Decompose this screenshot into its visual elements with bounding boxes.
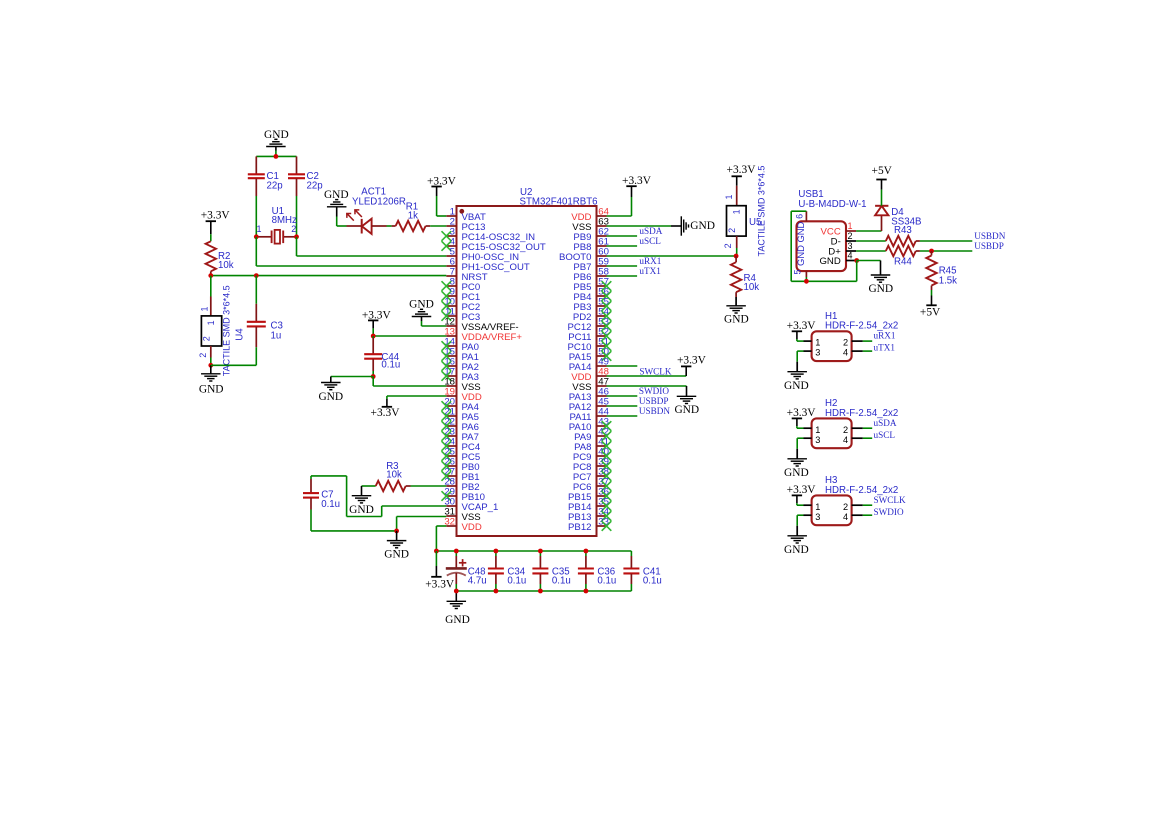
- junction R2/U4/NRST: [208, 273, 213, 278]
- U2 pin 56 PB4: [597, 295, 607, 297]
- U2 pin 38 PC7: [597, 475, 607, 477]
- svg-text:uTX1: uTX1: [639, 266, 661, 276]
- svg-text:1k: 1k: [408, 210, 418, 221]
- U2 pin 44 PA11: [597, 415, 607, 417]
- U2 pin-1 marker dot: [459, 209, 464, 214]
- U2 pin 57 PB5: [597, 285, 607, 287]
- wire +3.3V to VBAT: [436, 196, 438, 216]
- svg-text:U-B-M4DD-W-1: U-B-M4DD-W-1: [798, 199, 866, 210]
- svg-text:1: 1: [848, 221, 853, 231]
- wire H2 pin2 / net uSDA: [863, 427, 872, 429]
- H3 pin 4 stub: [852, 514, 863, 516]
- svg-text:GND: GND: [784, 467, 809, 479]
- wire D- to R43: [856, 240, 886, 242]
- wire PB9 pin62 / net uSDA: [607, 235, 638, 237]
- svg-text:GND: GND: [784, 380, 809, 392]
- capacitor C34 0.1u: [495, 551, 497, 556]
- ground (C44): [330, 377, 332, 383]
- U2 pin 10 PC2: [446, 305, 456, 307]
- U2 pin 19 VDD: [446, 395, 456, 397]
- svg-text:+3.3V: +3.3V: [787, 407, 817, 419]
- wire H3 pin3 to ground: [797, 514, 803, 516]
- wire GND pin4: [857, 260, 881, 262]
- svg-text:2: 2: [843, 425, 848, 435]
- capacitor C41 0.1u: [630, 551, 632, 556]
- wire H1 pin4 / net uTX1: [863, 350, 872, 352]
- svg-text:USBDP: USBDP: [974, 241, 1004, 251]
- wire C2 to crystal pin2: [296, 196, 298, 237]
- wire BOOT0 pin60 to U5/R4: [607, 255, 737, 257]
- wire R1 to PC13 pin2: [430, 225, 446, 227]
- junction shield pin5: [804, 279, 809, 284]
- wire crystal pin1 to PH1-OSC_OUT pin6: [255, 237, 257, 266]
- junction C3/NRST: [254, 273, 259, 278]
- svg-text:SWDIO: SWDIO: [639, 386, 669, 396]
- resistor R1 1k: [392, 225, 396, 227]
- U2 pin 50 PA15: [597, 355, 607, 357]
- junction C44 bottom: [371, 374, 376, 379]
- crystal U1 8MHz: [256, 236, 271, 238]
- svg-text:2: 2: [202, 336, 212, 341]
- wire VDD pin32 to rail: [436, 525, 446, 527]
- wire C7 top to VCAP_1 pin30: [310, 476, 312, 479]
- wire GND to VSSA: [422, 325, 447, 327]
- U2 pin 2 PC13: [446, 225, 456, 227]
- ground (USB1): [880, 261, 882, 276]
- wire R3 to PB2 pin28: [411, 485, 447, 487]
- svg-text:1: 1: [256, 224, 261, 234]
- svg-text:USBDN: USBDN: [974, 231, 1006, 241]
- svg-text:1u: 1u: [271, 330, 282, 341]
- U2 pin 29 PB10: [446, 495, 456, 497]
- resistor R45 1.5k: [931, 251, 933, 256]
- svg-text:2: 2: [843, 338, 848, 348]
- wire R44 / net USBDP: [920, 250, 972, 252]
- U2 pin 5 PH0-OSC_IN: [446, 255, 456, 257]
- wire H1 pin2 / net uRX1: [863, 340, 872, 342]
- svg-text:+3.3V: +3.3V: [427, 175, 457, 187]
- USB1 pin 4 stub: [846, 260, 857, 262]
- capacitor C48 4.7u: [455, 551, 457, 556]
- svg-text:GND: GND: [784, 544, 809, 556]
- U2 pin 18 VSS: [446, 385, 456, 387]
- U2 pin 30 VCAP_1: [446, 505, 456, 507]
- U2 pin 13 VDDA/VREF+: [446, 335, 456, 337]
- USB1 shield pin 5 stub: [805, 271, 807, 277]
- svg-text:VDD: VDD: [462, 522, 482, 533]
- svg-text:1: 1: [199, 306, 209, 311]
- svg-text:0.1u: 0.1u: [381, 360, 400, 371]
- U2 pin 34 PB13: [597, 515, 607, 517]
- wire NRST net: [211, 275, 446, 277]
- ground (C7/VSS): [396, 531, 398, 541]
- U2 pin 8 PC0: [446, 285, 456, 287]
- ground (H3): [796, 526, 798, 536]
- capacitor C2: [296, 156, 298, 174]
- svg-text:1: 1: [815, 425, 820, 435]
- LED ACT1 YLED1206R: [347, 225, 362, 227]
- wire H3 pin2 / net SWCLK: [863, 504, 872, 506]
- svg-text:GND: GND: [819, 256, 840, 267]
- wire VDDA pin13: [373, 335, 446, 337]
- U2 pin 61 PB8: [597, 245, 607, 247]
- H1 pin 2 stub: [852, 340, 863, 342]
- wire U5 pin2 to BOOT0: [736, 248, 738, 256]
- svg-text:+3.3V: +3.3V: [371, 407, 401, 419]
- resistor R44: [886, 246, 916, 256]
- junction U4 pin2 / C3: [208, 363, 213, 368]
- junction C34 bottom: [494, 589, 499, 594]
- svg-text:4: 4: [843, 348, 848, 358]
- svg-text:22p: 22p: [307, 180, 323, 191]
- svg-text:uSDA: uSDA: [639, 226, 662, 236]
- U2 pin 16 PA2: [446, 365, 456, 367]
- wire H1 pin3 to ground: [797, 350, 803, 352]
- U2 pin 4 PC15-OSC32_OUT: [446, 245, 456, 247]
- svg-text:2: 2: [198, 353, 208, 358]
- U2 pin 26 PB0: [446, 465, 456, 467]
- wire U4 pin2 to ground: [210, 358, 212, 366]
- U2 pin 51 PC10: [597, 345, 607, 347]
- junction rail/+3.3V: [434, 549, 439, 554]
- IC U2 STM32F401RBT6 body: [457, 206, 597, 536]
- svg-text:4.7u: 4.7u: [468, 576, 487, 587]
- svg-text:0.1u: 0.1u: [552, 576, 571, 587]
- svg-text:uSCL: uSCL: [874, 430, 896, 440]
- USB1 shield pin 6 stub: [805, 211, 807, 221]
- svg-text:1: 1: [731, 209, 741, 214]
- svg-text:GND: GND: [318, 391, 343, 403]
- wire PA13 pin46 / net SWDIO: [607, 395, 638, 397]
- svg-text:U4: U4: [234, 328, 245, 341]
- U2 pin 22 PA6: [446, 425, 456, 427]
- U2 pin 21 PA5: [446, 415, 456, 417]
- wire +3.3V to VDD pin64: [631, 197, 633, 216]
- wire VCC to D4: [856, 230, 881, 232]
- H3 pin 2 stub: [852, 504, 863, 506]
- svg-text:USBDN: USBDN: [639, 406, 671, 416]
- svg-text:STM32F401RBT6: STM32F401RBT6: [520, 197, 598, 208]
- junction C35 top: [538, 549, 543, 554]
- svg-text:1.5k: 1.5k: [939, 276, 957, 287]
- svg-text:+3.3V: +3.3V: [787, 484, 817, 496]
- U2 pin 25 PC5: [446, 455, 456, 457]
- svg-text:+5V: +5V: [920, 307, 941, 319]
- U2 pin 12 VSSA/VREF-: [446, 325, 456, 327]
- U2 pin 49 PA14: [597, 365, 607, 367]
- capacitor C35 0.1u: [539, 551, 541, 556]
- U2 pin 3 PC14-OSC32_IN: [446, 235, 456, 237]
- junction top rail: [274, 154, 279, 159]
- wire VSS pin31: [397, 516, 447, 518]
- wire VSS pin47 to ground: [607, 385, 687, 387]
- svg-text:0.1u: 0.1u: [597, 576, 616, 587]
- svg-text:4: 4: [848, 251, 853, 261]
- svg-text:GND: GND: [384, 548, 409, 560]
- USB1 pin 2 stub: [846, 240, 856, 242]
- wire C3 bottom to U4 pin2: [255, 347, 257, 365]
- wire C1-C2 top rail: [256, 155, 296, 157]
- svg-text:10k: 10k: [744, 282, 760, 293]
- wire shield loop: [791, 210, 806, 212]
- USB1 pin 3 stub: [846, 250, 856, 252]
- svg-text:3: 3: [815, 512, 820, 522]
- svg-text:uSDA: uSDA: [874, 418, 897, 428]
- U2 pin 24 PC4: [446, 445, 456, 447]
- H3 pin 3 stub: [804, 514, 812, 516]
- svg-text:SWCLK: SWCLK: [639, 367, 672, 377]
- svg-text:GND: GND: [349, 504, 374, 516]
- U2 pin 36 PB15: [597, 495, 607, 497]
- svg-text:uSCL: uSCL: [639, 236, 661, 246]
- U2 pin 54 PD2: [597, 315, 607, 317]
- svg-text:TACTILE SMD 3*6*4.5: TACTILE SMD 3*6*4.5: [757, 166, 767, 257]
- svg-text:GND: GND: [690, 220, 715, 232]
- wire C44 bottom to ground: [331, 376, 373, 378]
- H2 pin 2 stub: [852, 427, 863, 429]
- svg-text:4: 4: [843, 435, 848, 445]
- svg-text:1: 1: [815, 338, 820, 348]
- wire C44 bottom to VSS pin18: [372, 377, 374, 387]
- ground (H1): [796, 362, 798, 372]
- svg-text:USBDP: USBDP: [639, 396, 669, 406]
- wire C1 to crystal pin1: [255, 196, 257, 237]
- junction crystal pin1: [254, 234, 259, 239]
- svg-text:+5V: +5V: [872, 165, 893, 177]
- ground (VSS pin63, rotated): [671, 225, 681, 227]
- H1 pin 3 stub: [804, 350, 812, 352]
- U2 pin 63 VSS: [597, 225, 607, 227]
- capacitor C44 0.1u: [372, 338, 374, 354]
- U2 pin 60 BOOT0: [597, 255, 607, 257]
- junction C34 top: [494, 549, 499, 554]
- wire VDD pin48 to +3.3V: [607, 375, 687, 377]
- U2 pin 28 PB2: [446, 485, 456, 487]
- power +3.3V (rail, inverted): [435, 551, 437, 566]
- U2 pin 33 PB12: [597, 525, 607, 527]
- U2 pin 9 PC1: [446, 295, 456, 297]
- svg-text:GND: GND: [445, 614, 470, 626]
- resistor R4 10k: [735, 256, 737, 262]
- wire PA11 pin44 / net USBDN: [607, 415, 638, 417]
- svg-text:2: 2: [848, 231, 853, 241]
- svg-text:10k: 10k: [386, 470, 402, 481]
- ground (decoupling rail): [455, 591, 457, 601]
- svg-text:2: 2: [723, 243, 733, 248]
- U2 pin 52 PC11: [597, 335, 607, 337]
- U2 pin 14 PA0: [446, 345, 456, 347]
- wire H2 pin4 / net uSCL: [863, 437, 872, 439]
- U2 pin 6 PH1-OSC_OUT: [446, 265, 456, 267]
- H1 pin 1 stub: [804, 340, 812, 342]
- wire VDD pin19: [387, 395, 446, 397]
- capacitor C1: [255, 156, 257, 174]
- wire PA14 pin49: [607, 365, 638, 367]
- svg-text:TACTILE SMD 3*6*4.5: TACTILE SMD 3*6*4.5: [222, 285, 232, 376]
- H1 pin 4 stub: [852, 350, 863, 352]
- U2 pin 39 PC8: [597, 465, 607, 467]
- junction VDDA/C44: [371, 334, 376, 339]
- U2 pin 11 PC3: [446, 315, 456, 317]
- ground (R3): [361, 486, 363, 496]
- power +3.3V (VDD pin19, inverted): [386, 399, 388, 407]
- U2 pin 31 VSS: [446, 515, 456, 517]
- diode D4 SS34B: [881, 215, 883, 231]
- wire PB6 pin58 / net uTX1: [607, 275, 638, 277]
- junction C36 top: [584, 549, 589, 554]
- svg-text:3: 3: [815, 348, 820, 358]
- U2 pin 46 PA13: [597, 395, 607, 397]
- U2 pin 7 NRST: [446, 275, 456, 277]
- svg-text:2: 2: [843, 502, 848, 512]
- svg-text:1: 1: [724, 194, 734, 199]
- USB1 pin 1 stub: [846, 230, 856, 232]
- wire +3.3V decoupling rail: [436, 550, 631, 552]
- svg-text:4: 4: [843, 512, 848, 522]
- svg-text:uRX1: uRX1: [874, 331, 896, 341]
- wire GND decoupling rail: [456, 590, 631, 592]
- U2 pin 15 PA1: [446, 355, 456, 357]
- capacitor C36 0.1u: [585, 551, 587, 556]
- H2 pin 4 stub: [852, 437, 863, 439]
- svg-text:SWCLK: SWCLK: [874, 495, 907, 505]
- wire VSS pin63 to ground: [607, 225, 672, 227]
- wire PB8 pin61 / net uSCL: [607, 245, 638, 247]
- H3 pin 1 stub: [804, 504, 812, 506]
- U2 pin 62 PB9: [597, 235, 607, 237]
- wire R43 / net USBDN: [920, 240, 972, 242]
- svg-text:3: 3: [848, 241, 853, 251]
- svg-text:YLED1206R: YLED1206R: [352, 196, 406, 207]
- junction C48 top: [454, 549, 459, 554]
- resistor R2 10k: [210, 234, 212, 241]
- U2 pin 40 PC9: [597, 455, 607, 457]
- wire PA12 pin45 / net USBDP: [607, 405, 638, 407]
- junction USBDP/R45: [929, 249, 934, 254]
- svg-text:2: 2: [727, 228, 737, 233]
- capacitor C7 0.1u: [310, 479, 312, 493]
- resistor R43: [886, 236, 916, 246]
- U2 pin 59 PB7: [597, 265, 607, 267]
- svg-text:1: 1: [206, 320, 216, 325]
- wire PB7 pin59 / net uRX1: [607, 265, 638, 267]
- svg-text:0.1u: 0.1u: [321, 499, 340, 510]
- junction crystal pin2: [294, 234, 299, 239]
- wire H3 pin4 / net SWDIO: [863, 514, 872, 516]
- U2 pin 23 PA7: [446, 435, 456, 437]
- U2 pin 64 VDD: [597, 215, 607, 217]
- switch U5 TACTILE: [736, 186, 738, 206]
- ground (R4): [735, 297, 737, 306]
- U2 pin 48 VDD: [597, 375, 607, 377]
- wire crystal pin2 to PH0-OSC_IN pin5: [296, 237, 298, 256]
- U2 pin 43 PA10: [597, 425, 607, 427]
- svg-text:3: 3: [815, 435, 820, 445]
- U2 pin 32 VDD: [446, 525, 456, 527]
- svg-text:+3.3V: +3.3V: [677, 354, 707, 366]
- junction USB GND/shield: [854, 258, 859, 263]
- svg-text:0.1u: 0.1u: [643, 576, 662, 587]
- U2 pin 58 PB6: [597, 275, 607, 277]
- U2 pin 47 VSS: [597, 385, 607, 387]
- svg-text:GND: GND: [199, 383, 224, 395]
- svg-text:+3.3V: +3.3V: [787, 320, 817, 332]
- svg-text:5: 5: [792, 269, 802, 274]
- U2 pin 20 PA4: [446, 405, 456, 407]
- junction C35 bottom: [538, 589, 543, 594]
- U2 pin 45 PA12: [597, 405, 607, 407]
- svg-text:+3.3V: +3.3V: [201, 210, 231, 222]
- svg-text:R43: R43: [894, 225, 912, 236]
- svg-text:GND GND: GND GND: [795, 221, 806, 265]
- U2 pin 35 PB14: [597, 505, 607, 507]
- svg-text:PB12: PB12: [568, 522, 591, 533]
- U2 pin 1 VBAT: [446, 215, 456, 217]
- svg-text:uTX1: uTX1: [874, 343, 896, 353]
- ground (H2): [796, 449, 798, 459]
- svg-text:10k: 10k: [218, 260, 234, 271]
- resistor R3 10k (BOOT1 pulldown): [362, 485, 376, 487]
- wire U4 pin1 riser: [210, 276, 212, 297]
- junction C48 bottom: [454, 589, 459, 594]
- svg-text:SWDIO: SWDIO: [874, 507, 904, 517]
- U2 pin 37 PC6: [597, 485, 607, 487]
- wire GND to LED: [337, 225, 347, 227]
- wire H2 pin3 to ground: [797, 437, 803, 439]
- wire D+ to R44: [856, 250, 886, 252]
- svg-text:1: 1: [815, 502, 820, 512]
- svg-text:GND: GND: [868, 283, 893, 295]
- svg-text:2: 2: [291, 224, 296, 234]
- svg-text:+3.3V: +3.3V: [425, 579, 455, 591]
- junction C7/VSS/ground: [394, 529, 399, 534]
- switch U4 TACTILE: [210, 297, 212, 316]
- svg-text:GND: GND: [674, 404, 699, 416]
- U2 pin 41 PA8: [597, 445, 607, 447]
- U2 pin 27 PB1: [446, 475, 456, 477]
- U2 pin 53 PC12: [597, 325, 607, 327]
- junction BOOT0/U5/R4: [734, 254, 739, 259]
- svg-text:6: 6: [794, 214, 804, 219]
- svg-text:uRX1: uRX1: [639, 256, 661, 266]
- wire C7 bottom: [310, 510, 312, 531]
- svg-text:+3.3V: +3.3V: [622, 175, 652, 187]
- wire LED to R1: [387, 225, 392, 227]
- svg-text:GND: GND: [724, 314, 749, 326]
- U2 pin 55 PB3: [597, 305, 607, 307]
- svg-text:+3.3V: +3.3V: [727, 164, 757, 176]
- junction C36 bottom: [584, 589, 589, 594]
- U2 pin 17 PA3: [446, 375, 456, 377]
- U2 pin 42 PA9: [597, 435, 607, 437]
- svg-text:R44: R44: [894, 256, 912, 267]
- svg-text:22p: 22p: [267, 180, 283, 191]
- capacitor C3 1u: [255, 276, 257, 304]
- H2 pin 3 stub: [804, 437, 812, 439]
- ground (VSS pin47): [686, 386, 688, 396]
- H2 pin 1 stub: [804, 427, 812, 429]
- ground (U4): [210, 365, 212, 374]
- power +5V (R45, inverted): [931, 290, 933, 296]
- svg-text:0.1u: 0.1u: [507, 576, 526, 587]
